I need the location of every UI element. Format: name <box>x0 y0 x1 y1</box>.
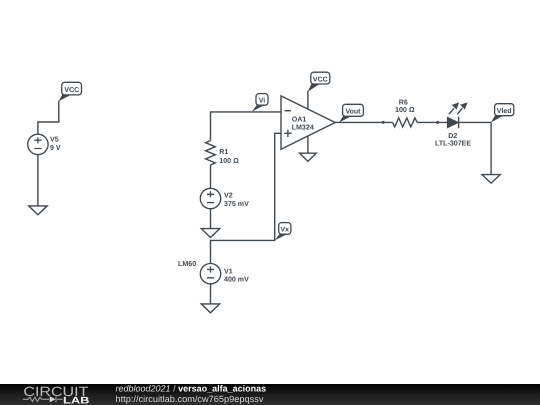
net flag Vout <box>339 104 363 122</box>
svg-text:Vi: Vi <box>259 97 266 105</box>
op-amp OA1 LM324 <box>281 96 335 149</box>
svg-text:Vout: Vout <box>345 109 361 116</box>
net flag Vi <box>252 94 268 112</box>
svg-text:V5: V5 <box>50 136 59 144</box>
net flag Vled <box>491 104 514 123</box>
ground (V2) <box>201 229 219 238</box>
wire R6 to D2 anode <box>417 121 447 123</box>
ground (V1) <box>201 304 219 313</box>
voltage source V5 <box>28 134 61 154</box>
voltage source V2 <box>200 188 249 208</box>
junction dot (R6/D2 node) <box>436 121 439 124</box>
svg-text:LM60: LM60 <box>178 260 196 268</box>
wire node Vx: V1 plus up and across to opamp non-inverting input <box>211 133 282 263</box>
voltage source V1 <box>200 264 249 284</box>
CircuitLab logo <box>23 384 90 405</box>
wire node Vout: op-amp output to R6 <box>335 121 392 123</box>
svg-text:VCC: VCC <box>313 76 328 83</box>
wire Vled node to ground <box>490 123 492 175</box>
resistor R6 <box>393 98 418 127</box>
wire D2 cathode to Vled node <box>459 121 492 123</box>
wire node Vi: opamp inverting input to R1 top <box>211 112 282 141</box>
svg-text:400 mV: 400 mV <box>224 275 249 283</box>
wire V1 minus to ground <box>210 284 212 304</box>
wire VCC flag to op-amp top <box>307 91 309 109</box>
net flag Vx <box>275 223 291 241</box>
svg-text:LM324: LM324 <box>292 124 314 132</box>
svg-text:OA1: OA1 <box>292 116 307 124</box>
footer title text <box>116 383 267 403</box>
svg-text:R1: R1 <box>219 148 228 156</box>
svg-text:http://circuitlab.com/cw765p9e: http://circuitlab.com/cw765p9epqssv <box>116 394 265 404</box>
LED D2 LTL-307EE <box>435 102 471 147</box>
svg-text:D2: D2 <box>448 132 457 140</box>
svg-text:Vx: Vx <box>281 227 290 234</box>
wire op-amp bottom to ground <box>307 136 309 153</box>
svg-text:100 Ω: 100 Ω <box>219 157 239 165</box>
svg-text:LTL-307EE: LTL-307EE <box>435 140 471 148</box>
resistor R1 <box>206 141 240 165</box>
svg-text:LAB: LAB <box>63 395 90 405</box>
wire from VCC flag to V5 plus terminal <box>38 101 59 135</box>
net flag VCC (left, node VCC) <box>59 82 82 101</box>
svg-text:VCC: VCC <box>64 87 79 94</box>
ground (op-amp) <box>300 153 317 161</box>
svg-text:Vled: Vled <box>497 107 512 115</box>
ground (V5) <box>29 206 47 215</box>
wire V2 minus to ground <box>210 209 212 229</box>
footer bar <box>0 384 540 405</box>
junction dot (Vout net) <box>382 121 385 124</box>
net flag VCC (op-amp supply) <box>308 72 330 92</box>
wire R1 bottom to V2 plus <box>210 165 212 188</box>
ground (Vled) <box>482 175 500 184</box>
svg-text:redblood2021 / versao_alfa_aci: redblood2021 / versao_alfa_acionas <box>116 383 267 393</box>
wire V5 minus to ground <box>37 155 39 206</box>
svg-text:9 V: 9 V <box>50 144 61 152</box>
svg-text:V2: V2 <box>224 191 233 199</box>
svg-text:100 Ω: 100 Ω <box>395 106 415 114</box>
svg-text:375 mV: 375 mV <box>224 200 249 208</box>
